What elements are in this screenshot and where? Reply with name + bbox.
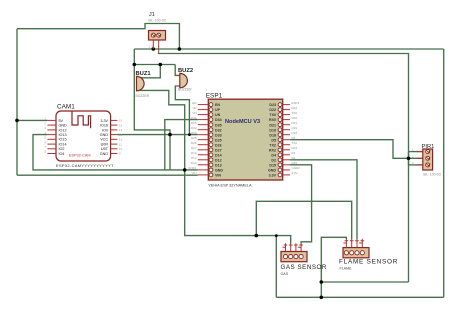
svg-text:D32: D32	[215, 128, 222, 132]
svg-text:TX0: TX0	[269, 113, 276, 117]
svg-text:D14: D14	[215, 153, 222, 157]
svg-text:UN: UN	[215, 113, 221, 117]
svg-text:RX2: RX2	[269, 148, 276, 152]
svg-text:D12: D12	[191, 156, 197, 160]
junction CAM GND line jog	[168, 133, 172, 137]
svg-text:RX0: RX0	[269, 118, 276, 122]
svg-text:GAS: GAS	[281, 272, 289, 276]
svg-text:YEHIA ESP 32YNAMELA: YEHIA ESP 32YNAMELA	[208, 184, 252, 188]
svg-text:GND: GND	[59, 124, 68, 128]
svg-text:D27: D27	[191, 146, 197, 150]
connector PIR1	[412, 144, 441, 177]
svg-text:D22: D22	[292, 106, 298, 110]
junction 5V tap on left vertical	[15, 119, 19, 123]
svg-text:D18: D18	[292, 131, 298, 135]
ESP1 left pin names	[215, 103, 223, 177]
svg-text:U0R: U0R	[101, 143, 109, 147]
svg-text:J1: J1	[149, 12, 155, 18]
wire PIR vertical to flame junction	[321, 281, 408, 283]
svg-text:FLAME: FLAME	[340, 267, 353, 271]
svg-text:D19: D19	[292, 126, 298, 130]
svg-text:IO15: IO15	[59, 138, 67, 142]
junction BUZ2 drop on D33 line	[188, 133, 191, 136]
svg-text:D2: D2	[292, 156, 296, 160]
CAM1 left pin names	[59, 119, 68, 156]
wire PIR pin1 stub	[409, 151, 423, 153]
svg-text:ESP32-CAM: ESP32-CAM	[69, 154, 91, 158]
CAM1 pin numbers	[44, 117, 46, 154]
svg-text:BUZZER: BUZZER	[136, 94, 150, 98]
svg-text:UP: UP	[192, 106, 196, 110]
svg-text:SIL-100-02: SIL-100-02	[148, 19, 166, 23]
svg-text:UP: UP	[215, 108, 221, 112]
svg-text:D4: D4	[271, 153, 276, 157]
CAM1 right pin names	[100, 119, 109, 156]
svg-text:D34: D34	[191, 116, 197, 120]
buzzer BUZ2	[178, 68, 193, 92]
left pin stubs	[47, 120, 56, 153]
svg-text:TX2: TX2	[269, 143, 276, 147]
wire BUZ2 minus down to CAM GND and ESP D33 line	[175, 86, 189, 135]
svg-text:IO4: IO4	[59, 152, 65, 156]
svg-text:TX0: TX0	[292, 111, 298, 115]
svg-text:1 2: 1 2	[149, 45, 153, 49]
svg-text:D25: D25	[191, 136, 197, 140]
left pin stubs	[198, 105, 209, 175]
svg-text:GND: GND	[100, 133, 109, 137]
svg-text:D21: D21	[269, 123, 276, 127]
svg-text:IO16: IO16	[100, 124, 108, 128]
svg-text:FLAME SENSOR: FLAME SENSOR	[339, 259, 398, 266]
wire CAM GND to ESP D33	[117, 134, 197, 136]
svg-text:RX2: RX2	[292, 146, 298, 150]
wire bus1 right side down	[443, 49, 445, 297]
buzzer BUZ1	[136, 71, 152, 98]
svg-text:IO12: IO12	[59, 128, 67, 132]
wire PIR stub bracket vertical	[408, 152, 410, 165]
svg-text:GND2: GND2	[292, 166, 301, 170]
svg-text:D33: D33	[215, 133, 222, 137]
svg-text:13: 13	[119, 133, 123, 137]
svg-text:D21: D21	[292, 121, 298, 125]
wire BUZ2 plus to bus2	[175, 65, 180, 76]
wire ESP D5 to PIR junction	[290, 140, 423, 159]
wire 5V to CAM1 pin 5V	[17, 119, 47, 121]
svg-text:D5: D5	[292, 136, 296, 140]
svg-text:GND1: GND1	[188, 166, 197, 170]
connector FLAME SENSOR	[339, 239, 398, 271]
svg-text:IO13: IO13	[59, 133, 67, 137]
svg-text:10: 10	[119, 147, 123, 151]
svg-text:11: 11	[119, 142, 122, 146]
wire left vertical 5V net	[16, 29, 18, 176]
svg-text:IO14: IO14	[59, 143, 67, 147]
wire branch up to flame sensor pin2	[256, 201, 351, 239]
svg-text:D32: D32	[191, 126, 197, 130]
svg-text:D26: D26	[191, 141, 197, 145]
wire BUZ1 minus down to ground line and sensors	[137, 90, 291, 243]
svg-text:D25: D25	[215, 138, 222, 142]
svg-text:D23: D23	[269, 103, 276, 107]
junction BUZ1 plus on bus2	[159, 63, 163, 67]
wire bus2 buzzer bus	[134, 64, 175, 66]
left pin circles	[209, 103, 213, 177]
svg-text:D14: D14	[191, 151, 197, 155]
junction flame branch on sensor ground run	[254, 234, 258, 238]
svg-text:D35: D35	[215, 123, 222, 127]
right pin circles	[278, 103, 282, 177]
svg-text:D18: D18	[269, 133, 276, 137]
connector J1	[148, 12, 166, 54]
svg-text:D15: D15	[292, 161, 298, 165]
svg-text:12: 12	[119, 138, 123, 142]
svg-text:VCC: VCC	[100, 138, 108, 142]
svg-text:GND: GND	[268, 169, 276, 173]
svg-text:ESP1: ESP1	[292, 101, 300, 105]
wire bus2 drop and jog to ground line	[134, 65, 170, 170]
svg-text:3.3V: 3.3V	[292, 171, 298, 175]
svg-text:ESP32-CAMYYYYYYYYYYT: ESP32-CAMYYYYYYYYYYT	[56, 163, 114, 168]
module ESP1 NodeMCU V3	[188, 93, 300, 188]
svg-text:VIN: VIN	[191, 171, 196, 175]
svg-text:D22: D22	[269, 108, 276, 112]
svg-text:3.3V: 3.3V	[100, 119, 108, 123]
svg-text:EN: EN	[215, 103, 220, 107]
svg-text:D26: D26	[215, 143, 222, 147]
junction top loop on bus1	[178, 47, 182, 51]
svg-text:D34: D34	[215, 118, 222, 122]
wire VIN line to ESP1 VIN	[17, 174, 198, 176]
module CAM1 ESP32-CAM	[44, 104, 122, 168]
wire gas left ground drop to bottom bus	[275, 236, 277, 298]
svg-text:D5: D5	[271, 138, 276, 142]
wire ESP D2 to flame sensor pin3	[290, 160, 357, 239]
svg-text:16: 16	[119, 119, 123, 123]
antenna meander	[72, 112, 91, 129]
ESP1 right net labels	[292, 101, 301, 175]
wire BUZ1 plus to bus2	[137, 65, 161, 78]
right pin stubs	[283, 105, 290, 175]
ESP1 right pin names	[268, 103, 277, 177]
svg-text:U0T: U0T	[101, 147, 109, 151]
junction flame pin1 to PIR run	[320, 280, 324, 284]
svg-text:D12: D12	[215, 158, 222, 162]
junction bus2 left drop	[133, 63, 137, 67]
junction flame drop on bottom bus	[320, 296, 324, 300]
svg-text:GAS SENSOR: GAS SENSOR	[281, 264, 327, 271]
svg-text:CAM1: CAM1	[57, 104, 75, 111]
svg-text:D13: D13	[191, 161, 197, 165]
svg-text:PIR1: PIR1	[422, 144, 435, 150]
wire second line J1 pin2 to PIR	[158, 54, 409, 283]
svg-text:VN: VN	[192, 111, 196, 115]
wire CAM IO13 to ground line to ESP GND	[33, 135, 198, 170]
svg-text:3.3V: 3.3V	[269, 174, 277, 178]
svg-text:15: 15	[119, 123, 123, 127]
junction J1 pin1 on bus1	[152, 47, 156, 51]
junction PIR feed	[407, 157, 411, 161]
svg-text:D27: D27	[215, 148, 222, 152]
wire ESP D34 drop to ground line	[165, 120, 198, 170]
wire flame pin1 to bottom junctions	[321, 237, 346, 297]
ESP1 left net labels	[188, 101, 197, 175]
svg-text:GND: GND	[215, 169, 223, 173]
svg-text:NodeMCU V3: NodeMCU V3	[225, 119, 260, 125]
svg-text:D2: D2	[271, 158, 276, 162]
svg-text:RX0: RX0	[292, 116, 298, 120]
svg-text:EN: EN	[192, 101, 196, 105]
svg-text:D13: D13	[215, 163, 222, 167]
wire top loop from left edge over J1	[17, 24, 179, 50]
junction gas left drop	[275, 234, 278, 237]
svg-text:ESP1: ESP1	[206, 93, 223, 100]
wire bus1 ground top	[134, 48, 443, 50]
svg-text:D19: D19	[269, 128, 276, 132]
svg-text:VIN: VIN	[215, 174, 221, 178]
svg-text:D33: D33	[191, 131, 197, 135]
connector GAS SENSOR	[281, 243, 327, 275]
svg-text:IO2: IO2	[59, 147, 65, 151]
wire PIR pin3 stub	[409, 164, 423, 166]
svg-text:D35: D35	[191, 121, 197, 125]
svg-text:IO0: IO0	[102, 128, 108, 132]
svg-text:BUZ1: BUZ1	[136, 71, 152, 77]
wire bus1 left drop to bus2	[133, 49, 135, 65]
junction ground line drop to sensors	[183, 168, 187, 172]
svg-text:TX2: TX2	[292, 141, 298, 145]
svg-text:GND: GND	[100, 152, 109, 156]
svg-text:D15: D15	[269, 163, 276, 167]
svg-text:BUZ2: BUZ2	[178, 68, 193, 74]
svg-text:SIL-100-03: SIL-100-03	[423, 173, 441, 177]
wire bottom bus	[276, 296, 443, 298]
svg-text:14: 14	[119, 128, 123, 132]
svg-text:BUZZER: BUZZER	[178, 88, 192, 92]
svg-text:5V: 5V	[59, 119, 64, 123]
wire ESP D15 to gas sensor pin4	[290, 165, 312, 244]
right pin stubs	[111, 120, 118, 153]
svg-text:D4: D4	[292, 151, 296, 155]
